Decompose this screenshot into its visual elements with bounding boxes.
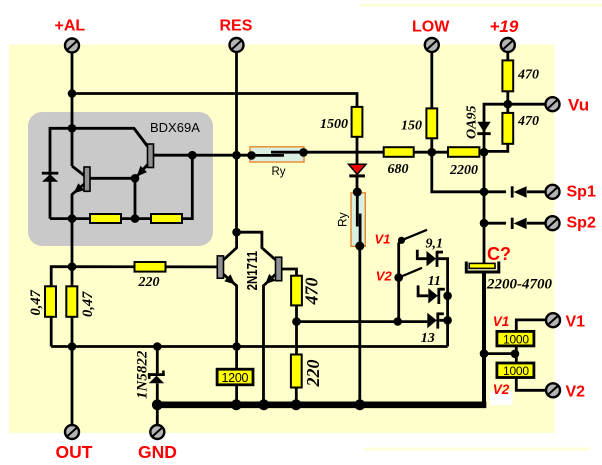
- junction module bottom rail / OUT line: [68, 214, 77, 223]
- svg-text:Vu: Vu: [568, 96, 589, 115]
- svg-text:BDX69A: BDX69A: [150, 120, 200, 135]
- transistor Q3 emitter: [224, 274, 237, 346]
- wire Sp1 diode to terminal: [527, 190, 546, 193]
- svg-text:RES: RES: [220, 18, 253, 35]
- node J rail / OA95 / Sp column: [480, 148, 489, 157]
- svg-text:0,47: 0,47: [80, 291, 96, 317]
- junction selector / zener line: [393, 317, 402, 326]
- wire RES vertical: [235, 52, 238, 232]
- junction zener 11-13: [443, 316, 452, 325]
- terminal LOW: [425, 38, 439, 52]
- relay contact Ry1 blades: [251, 154, 284, 157]
- svg-text:V1: V1: [566, 314, 586, 331]
- junction +AL / module rail: [68, 124, 77, 133]
- bus dot Q4 emitter: [258, 399, 269, 410]
- junction RES / base line: [232, 151, 241, 160]
- resistor 1000 lower: [497, 363, 534, 378]
- diode D1 inside module: [42, 172, 59, 182]
- top edge strip: [360, 4, 602, 7]
- junction Sp2: [480, 219, 489, 228]
- terminal OUT: [65, 425, 79, 439]
- terminal +19: [501, 38, 515, 52]
- transistor Q3 emitter arrow: [224, 274, 235, 284]
- junction OUT line / emitter line: [68, 342, 77, 351]
- zener 9,1: [427, 251, 444, 267]
- svg-text:LOW: LOW: [412, 19, 450, 36]
- transistor Q1 collector: [72, 166, 84, 176]
- wire GND branch from emitter line: [156, 347, 159, 374]
- transistor Q2 emitter arrow: [137, 166, 147, 177]
- junction Q2 base / module rail: [188, 151, 197, 160]
- svg-text:V2: V2: [493, 382, 510, 397]
- terminal V1: [546, 313, 560, 327]
- svg-text:V1: V1: [375, 231, 391, 246]
- wire LED to relay coil contact: [356, 177, 359, 192]
- resistor 680: [384, 147, 414, 157]
- resistor 1200 box: [217, 369, 253, 385]
- wire module top rail: [50, 128, 148, 218]
- svg-text:13: 13: [421, 331, 435, 346]
- bottom edge strip: [365, 448, 590, 451]
- wire 220 vertical to bus: [295, 387, 298, 403]
- junction 1000-1000 divider: [511, 350, 520, 359]
- wire Sp2 line: [484, 222, 506, 225]
- diode Sp1: [511, 186, 527, 197]
- wire selector common V1/V2: [399, 240, 402, 321]
- terminal V2: [546, 383, 560, 397]
- svg-text:+19: +19: [490, 17, 519, 36]
- resistor 220 vertical: [291, 355, 302, 388]
- junction OUT line / 220 line: [68, 262, 77, 271]
- wire node B down to module bottom rail: [134, 178, 137, 218]
- bus dot 220: [291, 399, 302, 410]
- svg-text:0,47: 0,47: [28, 289, 44, 315]
- svg-text:470: 470: [517, 68, 539, 83]
- wire between 1000s: [515, 346, 518, 363]
- transistor Q1 emitter: [72, 184, 84, 219]
- bus dot GND: [152, 399, 163, 410]
- resistor 1000 upper: [497, 331, 534, 346]
- darlington module BDX69A gray body: [28, 112, 213, 246]
- diode Sp2: [511, 218, 527, 229]
- wire OA95 branch: [484, 104, 508, 152]
- resistor 470 vertical: [291, 276, 302, 306]
- transistor Q2 collector diagonal: [134, 128, 148, 146]
- resistor 220 horizontal: [135, 262, 166, 272]
- junction Q1 base / Q2 emitter: [131, 174, 140, 183]
- svg-text:Ry: Ry: [272, 166, 286, 178]
- svg-text:220: 220: [138, 275, 160, 290]
- svg-text:220: 220: [303, 360, 323, 388]
- wire Q4 base to 470: [282, 269, 297, 276]
- svg-text:C?: C?: [487, 244, 511, 264]
- wire 1500 to LED: [356, 137, 359, 165]
- wire Q3 emitter node to bus: [235, 347, 238, 404]
- junction LED / Ry2 top: [353, 188, 362, 197]
- wire capacitor to ground bus (thick): [482, 272, 486, 405]
- junction dot 484.0,353.6: [480, 349, 489, 358]
- switch pivot V2: [394, 273, 403, 282]
- wire rail 2200 to node J: [479, 151, 484, 154]
- svg-text:Sp1: Sp1: [567, 183, 596, 200]
- wire module bottom rail: [50, 155, 192, 218]
- junction +19 / Vu: [504, 100, 513, 109]
- svg-text:V1: V1: [493, 314, 510, 329]
- wire Sp1 line: [484, 190, 506, 193]
- wire left 0,47 branch top: [51, 267, 72, 287]
- wire 470 lower to node J: [485, 144, 508, 152]
- wire right 0,47 bottom to OUT: [71, 317, 74, 425]
- resistor 470 lower: [502, 113, 513, 144]
- svg-text:2200-4700: 2200-4700: [486, 277, 552, 293]
- terminal GND: [150, 425, 164, 439]
- ground bus thick: [153, 401, 486, 408]
- junction 470 / zener line: [292, 317, 301, 326]
- bus dot 1200: [231, 399, 242, 410]
- zener 9,1 contact stub: [417, 250, 426, 259]
- LED red diode: [349, 164, 367, 177]
- wire left 0,47 bottom: [50, 317, 53, 347]
- resistor 2200: [448, 147, 479, 157]
- resistor 470 upper: [502, 60, 513, 91]
- wire Q2 base lead to relay contact: [154, 154, 253, 157]
- wire +AL vertical from terminal to node A: [71, 52, 74, 94]
- wire rail 680 to 2200: [414, 151, 448, 154]
- wire 1000 divider junction line: [484, 352, 516, 355]
- wire node J down through Sp nodes to capacitor: [483, 152, 486, 264]
- svg-text:2N1711: 2N1711: [244, 251, 261, 291]
- wire node Z1 to node Z2: [446, 296, 449, 321]
- wire top rail from node A to 1500 resistor: [72, 94, 357, 108]
- svg-text:1200: 1200: [222, 371, 249, 385]
- terminal Sp1: [546, 185, 560, 199]
- wire V2 terminal line: [516, 378, 546, 391]
- transistor Q3 base bar: [217, 256, 223, 278]
- transistor Q2 emitter to node B: [135, 165, 148, 179]
- zener 11 contact stub: [418, 285, 428, 295]
- wire rail relay to 680: [304, 151, 385, 154]
- diode 1N5822 schottky: [148, 371, 165, 384]
- resistor 0,47 right: [66, 286, 77, 317]
- svg-text:+AL: +AL: [55, 18, 86, 35]
- junction +AL / top rail: [68, 89, 77, 98]
- white patch under V2: [490, 391, 513, 405]
- wire +AL main vertical through module bottom to 0,47: [71, 219, 74, 287]
- wire 470 to Vu node: [506, 91, 509, 113]
- switch arm V2: [399, 268, 422, 278]
- resistor 150: [426, 108, 437, 138]
- wire 470 to node and down: [295, 305, 298, 355]
- wire 1N5822 to bus and GND terminal: [156, 383, 159, 425]
- wire LOW vertical: [430, 52, 433, 108]
- svg-text:Ry: Ry: [335, 212, 349, 227]
- resistor 1500: [352, 107, 363, 137]
- transistor Q4 collector: [237, 232, 276, 260]
- junction Sp1: [480, 188, 489, 197]
- svg-text:OUT: OUT: [56, 442, 93, 462]
- junction module bottom rail B: [131, 214, 140, 223]
- svg-text:V2: V2: [566, 384, 586, 401]
- wire V1 terminal line: [516, 320, 546, 332]
- wire emitter line y=346.5: [51, 345, 447, 348]
- svg-text:9,1: 9,1: [426, 236, 444, 251]
- transistor Q3 collector: [224, 232, 237, 260]
- bus dot Ry2: [354, 399, 365, 410]
- terminal Sp2: [546, 216, 560, 230]
- transistor Q2 base bar: [148, 144, 154, 168]
- svg-text:2200: 2200: [449, 163, 478, 178]
- zener 11: [428, 288, 445, 304]
- svg-text:Sp2: Sp2: [567, 214, 596, 231]
- junction relay Ry1 right: [299, 148, 308, 157]
- svg-text:470: 470: [517, 114, 539, 129]
- capacitor C? symbol: [466, 262, 499, 273]
- wire 220 line to Q3 base: [72, 265, 217, 268]
- switch arm V1: [402, 230, 428, 241]
- svg-text:V2: V2: [376, 269, 393, 284]
- svg-text:1500: 1500: [320, 117, 348, 132]
- transistor Q4 emitter: [264, 274, 276, 403]
- wire Vu node to terminal: [508, 103, 546, 106]
- svg-text:150: 150: [401, 119, 422, 134]
- svg-text:11: 11: [428, 274, 441, 289]
- resistor module R-B: [151, 214, 182, 223]
- relay contact Ry2 blades: [356, 192, 359, 227]
- transistor Q1 emitter arrow: [74, 183, 85, 193]
- wire Q1 base to node B: [90, 177, 135, 180]
- wire zener 9,1 to node Z1: [438, 259, 447, 296]
- junction Ry2 bottom: [355, 242, 364, 251]
- svg-text:1000: 1000: [503, 364, 529, 378]
- diode OA95: [477, 122, 490, 135]
- wire +19 vertical: [506, 52, 509, 60]
- transistor Q1 base bar: [84, 167, 90, 191]
- relay contact Ry1 body: [250, 147, 304, 162]
- terminal Vu: [546, 97, 560, 111]
- transistor Q4 base bar: [276, 257, 282, 281]
- junction Q3 emitter / emitter line: [232, 342, 241, 351]
- junction GND branch / emitter line: [153, 342, 162, 351]
- wire Sp2 diode to terminal: [527, 222, 546, 225]
- junction zener 9,1-11: [443, 292, 452, 301]
- junction relay Ry1 left: [247, 151, 256, 160]
- relay contact Ry2 body: [351, 193, 365, 246]
- terminal RES: [230, 38, 244, 52]
- resistor module R-A: [90, 214, 121, 223]
- wire +AL vertical node A to module top rail: [71, 94, 74, 167]
- svg-text:1N5822: 1N5822: [135, 350, 151, 399]
- zener 13: [427, 313, 444, 329]
- junction LOW / rail: [428, 148, 437, 157]
- svg-text:680: 680: [388, 162, 409, 177]
- terminal +AL: [65, 39, 79, 53]
- svg-text:OA95: OA95: [465, 106, 480, 139]
- switch pivot V1: [398, 237, 405, 244]
- wire zener 13 right to node Z2 and down: [439, 320, 447, 346]
- resistor 0,47 left: [45, 286, 56, 317]
- yellow canvas: [9, 45, 554, 434]
- wire Ry2 down to ground bus: [358, 246, 361, 403]
- wire LOW node down to Sp1 line: [432, 152, 484, 192]
- svg-text:GND: GND: [138, 442, 177, 462]
- svg-text:470: 470: [301, 278, 321, 306]
- junction RES / Q3 collector: [232, 228, 241, 237]
- transistor Q4 emitter arrow: [265, 274, 275, 284]
- wire 150 to rail node: [430, 138, 433, 152]
- svg-text:1000: 1000: [503, 333, 529, 347]
- wire zener line y=321: [297, 320, 428, 323]
